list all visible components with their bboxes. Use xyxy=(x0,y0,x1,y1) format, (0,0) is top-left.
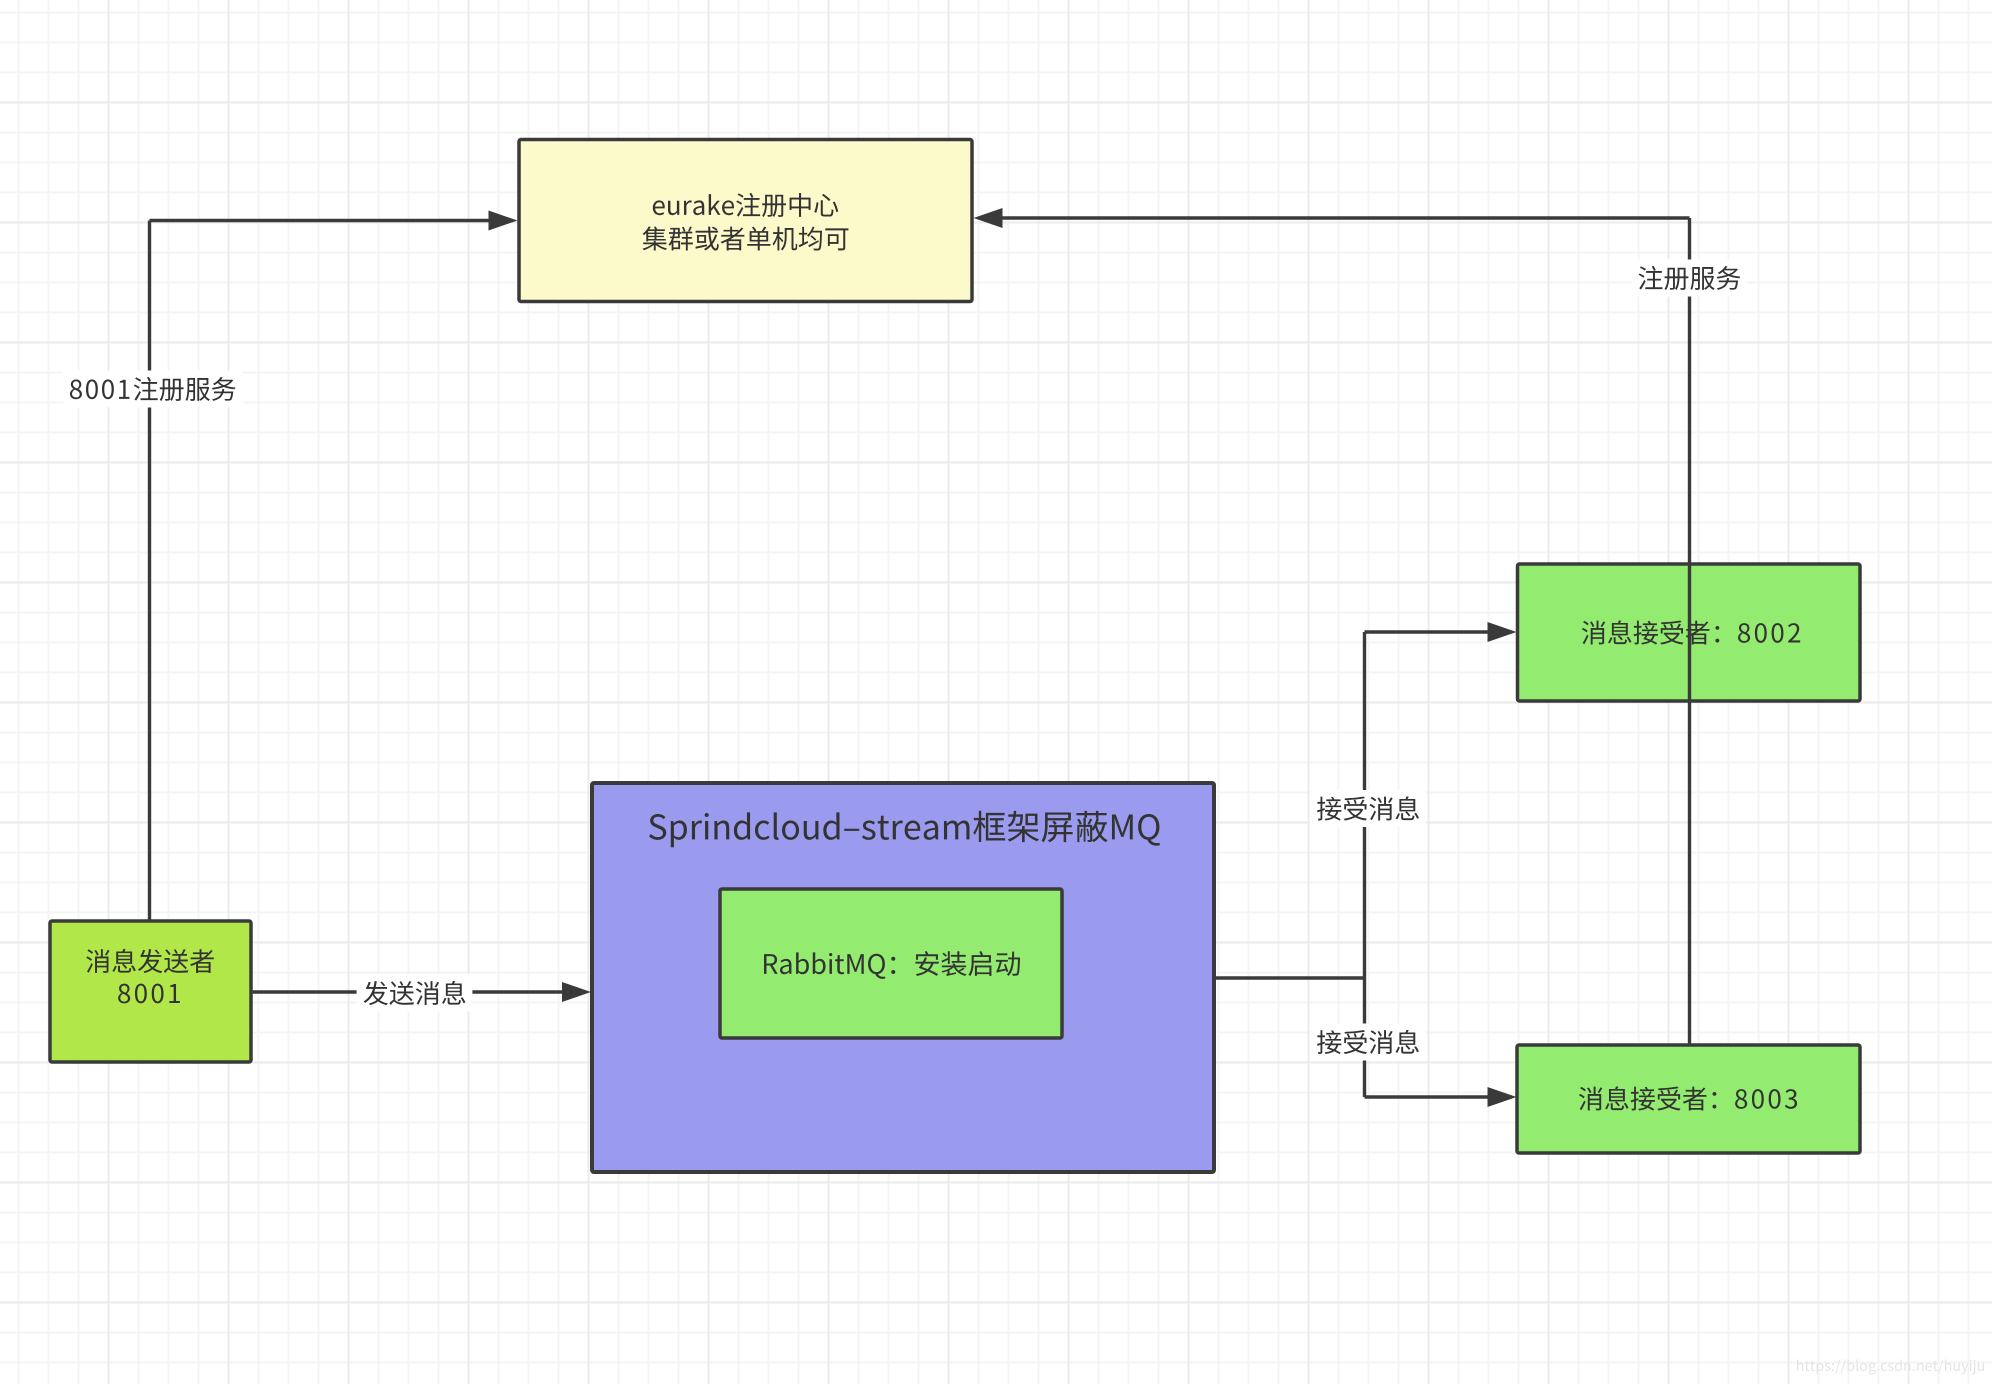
arrowhead into 8002 xyxy=(1488,622,1517,642)
arrowhead into 8003 xyxy=(1488,1087,1517,1107)
arrowhead into stream xyxy=(562,982,591,1002)
label receive message upper xyxy=(1310,790,1426,827)
label register service xyxy=(1632,260,1748,297)
box message sender 8001 xyxy=(50,921,251,1062)
label send message xyxy=(357,975,473,1012)
wire receivers to eureka (horizontal) xyxy=(1001,216,1690,219)
box receiver 8002 xyxy=(1518,564,1861,701)
box rabbitmq xyxy=(720,889,1062,1038)
box eureka registry xyxy=(519,140,972,302)
arrowhead into eureka right xyxy=(974,208,1003,228)
watermark xyxy=(1797,1359,1984,1374)
label receive message lower xyxy=(1310,1024,1426,1061)
wire branch to 8002 xyxy=(1365,630,1490,633)
wire receivers to eureka (vertical) xyxy=(1688,218,1691,1045)
label 8001 register service xyxy=(63,371,243,408)
wire sender 8001 to eureka (horizontal) xyxy=(150,219,491,222)
box springcloud-stream frame xyxy=(592,783,1214,1172)
box receiver 8003 xyxy=(1517,1045,1860,1153)
wire sender to stream xyxy=(251,990,563,993)
wire branch vertical xyxy=(1363,632,1366,1097)
arrowhead into eureka left xyxy=(489,211,518,231)
wire sender 8001 to eureka (vertical) xyxy=(148,221,151,922)
wire stream to branch point xyxy=(1214,976,1365,979)
wire branch to 8003 xyxy=(1365,1095,1490,1098)
